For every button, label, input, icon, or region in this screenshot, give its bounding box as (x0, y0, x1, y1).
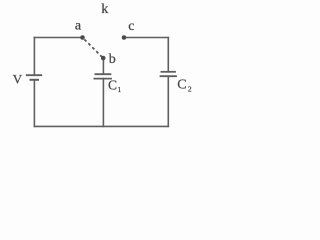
svg-text:c: c (128, 19, 134, 34)
svg-text:1: 1 (118, 85, 122, 94)
svg-text:a: a (75, 19, 82, 34)
svg-text:V: V (13, 72, 23, 87)
svg-text:b: b (109, 52, 116, 67)
svg-text:k: k (101, 2, 108, 17)
svg-text:C: C (177, 78, 186, 93)
svg-text:2: 2 (188, 85, 192, 94)
svg-text:C: C (108, 78, 117, 93)
